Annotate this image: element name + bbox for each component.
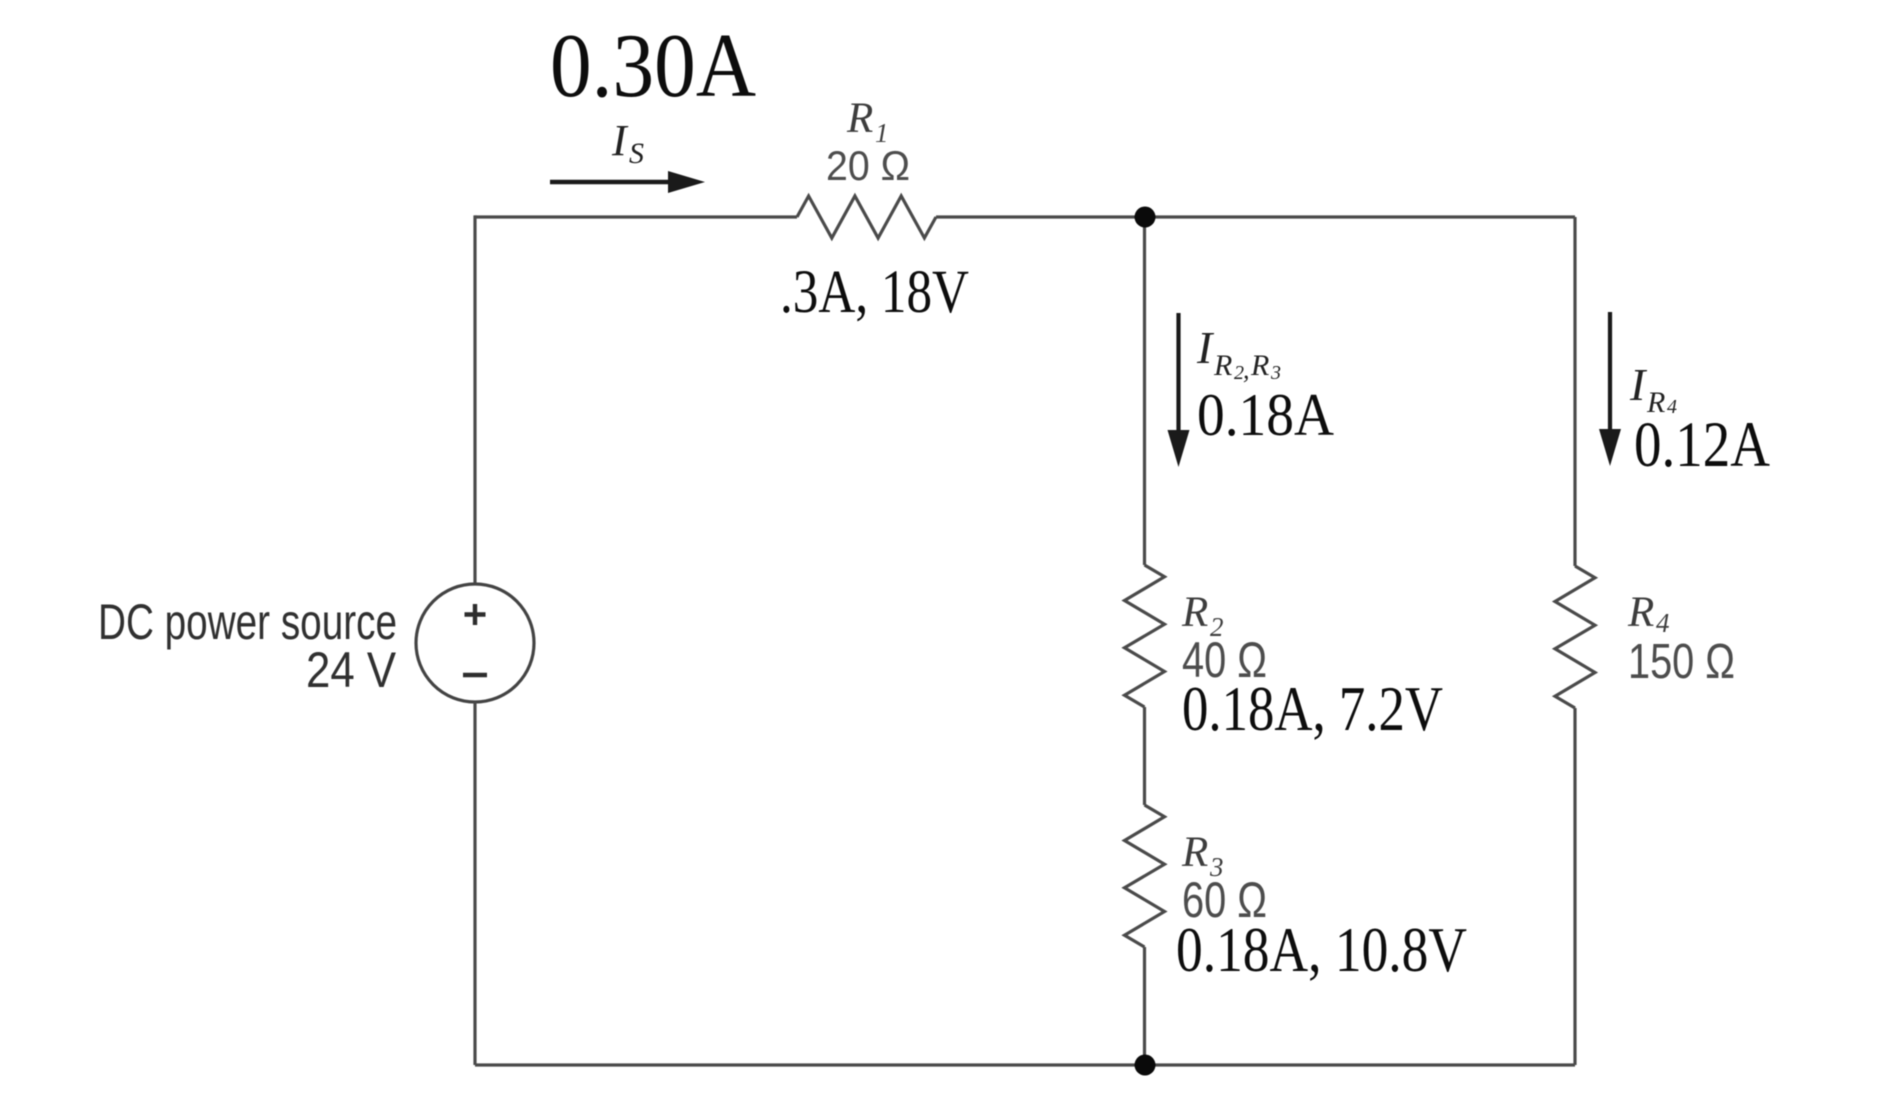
current arrow IR2R3 bbox=[1168, 313, 1190, 467]
svg-text:R: R bbox=[1627, 589, 1654, 636]
svg-text:R: R bbox=[1250, 349, 1269, 382]
svg-text:,: , bbox=[1243, 355, 1250, 384]
wire right branch lower bbox=[1573, 708, 1576, 1065]
current arrow IR4 bbox=[1599, 312, 1621, 466]
svg-text:0.18A, 10.8V: 0.18A, 10.8V bbox=[1176, 915, 1467, 985]
resistor R1 zigzag bbox=[797, 196, 936, 238]
wire bottom horizontal bbox=[475, 1063, 1575, 1066]
wire middle branch between R2 and R3 bbox=[1143, 707, 1146, 805]
svg-text:0.30A: 0.30A bbox=[550, 15, 756, 116]
svg-text:.3A, 18V: .3A, 18V bbox=[780, 259, 969, 326]
wire middle branch upper bbox=[1143, 217, 1146, 565]
svg-text:24 V: 24 V bbox=[306, 642, 397, 698]
resistor R3 label bbox=[1181, 829, 1224, 882]
svg-text:0.12A: 0.12A bbox=[1634, 409, 1770, 481]
wire top-right horizontal segment bbox=[936, 215, 1575, 218]
svg-text:R: R bbox=[1213, 349, 1232, 382]
DC power source plus terminal bbox=[465, 604, 486, 625]
resistor R3 zigzag bbox=[1125, 805, 1165, 947]
svg-text:20 Ω: 20 Ω bbox=[826, 142, 910, 189]
wire top-left horizontal segment bbox=[475, 215, 797, 218]
svg-text:R: R bbox=[1181, 589, 1208, 636]
wire right branch upper bbox=[1573, 217, 1576, 566]
svg-text:I: I bbox=[611, 116, 629, 165]
wire left branch upper bbox=[473, 215, 476, 584]
wire left branch lower bbox=[473, 702, 476, 1065]
svg-text:I: I bbox=[1629, 359, 1648, 410]
svg-text:I: I bbox=[1196, 322, 1215, 373]
svg-text:0.18A, 7.2V: 0.18A, 7.2V bbox=[1182, 674, 1443, 744]
node top junction dot bbox=[1135, 207, 1156, 228]
resistor R2 label bbox=[1181, 589, 1224, 642]
current arrow IS bbox=[550, 171, 705, 193]
svg-text:150 Ω: 150 Ω bbox=[1628, 635, 1735, 689]
current label IS bbox=[611, 116, 644, 170]
wire middle branch lower bbox=[1143, 947, 1146, 1065]
svg-text:3: 3 bbox=[1270, 362, 1281, 384]
DC power source minus terminal bbox=[463, 673, 487, 677]
svg-text:0.18A: 0.18A bbox=[1197, 382, 1334, 448]
DC power source U1 circle bbox=[416, 584, 534, 702]
svg-text:R: R bbox=[1181, 829, 1208, 876]
resistor R1 label bbox=[846, 95, 889, 148]
current label IR4 bbox=[1629, 359, 1677, 419]
node bottom junction dot bbox=[1135, 1055, 1156, 1076]
resistor R2 zigzag bbox=[1125, 565, 1165, 707]
svg-text:S: S bbox=[629, 137, 644, 170]
resistor R4 label bbox=[1627, 589, 1670, 638]
current label IR2R3 bbox=[1196, 322, 1281, 384]
resistor R4 zigzag bbox=[1555, 566, 1595, 708]
svg-text:R: R bbox=[846, 95, 873, 142]
svg-text:4: 4 bbox=[1656, 608, 1670, 638]
